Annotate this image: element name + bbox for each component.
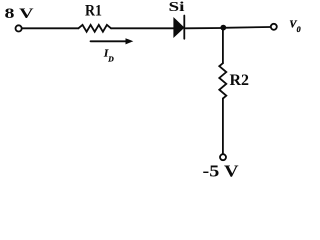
svg-text:R2: R2 <box>230 72 250 89</box>
wire: diode cathode to node A <box>186 27 224 29</box>
terminal Vo <box>271 24 277 30</box>
svg-text:R1: R1 <box>85 2 102 19</box>
wire: 8V terminal to R1 <box>22 27 78 29</box>
svg-text:8 V: 8 V <box>5 6 34 22</box>
terminal -5 V <box>220 154 226 160</box>
svg-text:Si: Si <box>169 0 185 15</box>
wire: R1 to diode anode <box>111 27 174 29</box>
wire: node A down to R2 <box>222 28 224 63</box>
wire: R2 to -5V terminal <box>222 99 224 154</box>
current arrow I_D <box>91 38 134 44</box>
diode D1 (Si) <box>174 16 184 39</box>
junction node A <box>220 25 226 31</box>
wire: node A to Vo terminal <box>223 26 271 29</box>
svg-text:-5 V: -5 V <box>203 162 239 178</box>
terminal 8 V <box>16 25 22 31</box>
resistor R1 <box>78 25 111 32</box>
resistor R2 <box>219 63 226 98</box>
